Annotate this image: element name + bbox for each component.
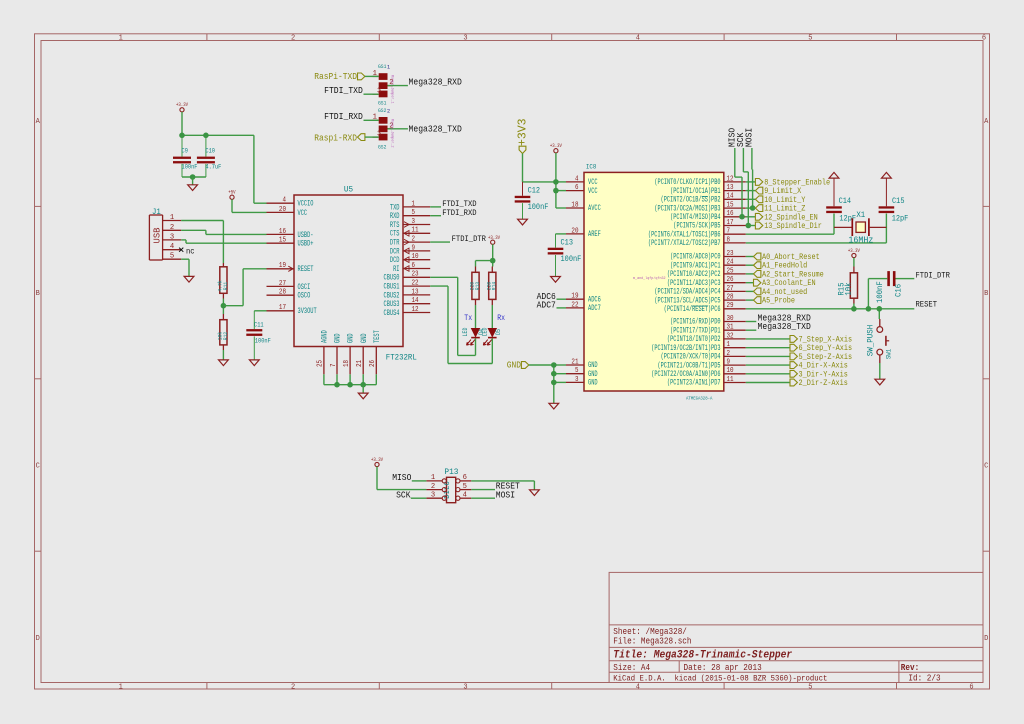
hier label 8_Stepper_Enable xyxy=(746,181,756,183)
svg-text:CBUS0: CBUS0 xyxy=(384,274,400,283)
wire pad2 to Mega328_TXD xyxy=(388,128,408,130)
junction R11/R12/RESET xyxy=(221,303,227,309)
svg-text:13: 13 xyxy=(412,288,419,296)
svg-text:6: 6 xyxy=(412,262,416,270)
svg-text:4: 4 xyxy=(575,175,579,183)
svg-text:26: 26 xyxy=(369,360,377,367)
svg-text:6: 6 xyxy=(982,35,986,43)
junction GND21 xyxy=(551,362,557,368)
wire R11 to R12 xyxy=(222,299,224,315)
IC8 pin 32 PD2 xyxy=(724,338,746,340)
wire J1 pin1 VBUS to R11 xyxy=(181,220,223,222)
U5 pin 9 DCR xyxy=(403,250,430,252)
svg-text:GS2: GS2 xyxy=(378,107,387,114)
svg-text:C10: C10 xyxy=(205,148,215,155)
junction rail/C9 xyxy=(179,133,185,139)
svg-text:20: 20 xyxy=(279,206,286,214)
svg-text:(PCINT23/AIN1)PD7: (PCINT23/AIN1)PD7 xyxy=(667,379,721,388)
IC8 pin 3 GND xyxy=(566,381,584,383)
svg-text:P13: P13 xyxy=(444,467,458,477)
svg-text:RI: RI xyxy=(393,265,399,274)
svg-text:32: 32 xyxy=(727,332,734,340)
svg-text:RasPi-TXD: RasPi-TXD xyxy=(314,72,357,82)
svg-text:26: 26 xyxy=(727,276,734,284)
wire RESET to P13 xyxy=(471,489,495,491)
junction GND3 xyxy=(551,380,557,386)
svg-text:27: 27 xyxy=(727,285,734,293)
IC8 pin 27 PC4 xyxy=(724,290,746,292)
wire PD0 to Mega328_RXD xyxy=(746,321,757,323)
hier label 6_Step_Y-Axis xyxy=(746,347,790,349)
svg-text:AREF: AREF xyxy=(588,230,601,239)
svg-text:+3.3V: +3.3V xyxy=(848,248,860,254)
P13 pin 2 xyxy=(426,489,442,491)
wire ADC6 xyxy=(557,298,567,300)
svg-text:IC8: IC8 xyxy=(586,164,597,171)
svg-text:Date: 28 apr 2013: Date: 28 apr 2013 xyxy=(684,663,762,673)
wire GND rail xyxy=(529,364,554,366)
IC8 pin 31 PD1 xyxy=(724,329,746,331)
wire SCK to P13 xyxy=(411,497,427,499)
svg-text:RESET: RESET xyxy=(298,265,314,274)
power +3.3V (C9/C10 rail) xyxy=(180,108,184,112)
svg-text:1: 1 xyxy=(387,65,390,71)
svg-text:R13: R13 xyxy=(474,281,481,290)
svg-text:FTDI_TXD: FTDI_TXD xyxy=(324,86,363,96)
svg-text:14: 14 xyxy=(412,297,419,305)
svg-text:1: 1 xyxy=(119,683,123,691)
svg-text:FT232RL: FT232RL xyxy=(386,353,417,363)
svg-text:23: 23 xyxy=(412,271,419,279)
svg-text:20: 20 xyxy=(571,227,578,235)
svg-text:5: 5 xyxy=(808,35,812,43)
hier label 5_Step-Z-Axis xyxy=(746,355,790,357)
svg-text:10k: 10k xyxy=(845,282,853,295)
svg-text:31: 31 xyxy=(727,324,734,332)
svg-text:(PCINT4/MISO)PB4: (PCINT4/MISO)PB4 xyxy=(670,213,721,222)
IC8 pin 1 PD3 xyxy=(724,347,746,349)
svg-text:29: 29 xyxy=(727,302,734,310)
hier label A3_Coolant_EN xyxy=(746,282,754,284)
svg-text:25: 25 xyxy=(727,267,734,275)
jumper GS1 pin 3 xyxy=(373,93,379,95)
hier label A1_FeedHold xyxy=(746,264,754,266)
svg-text:3: 3 xyxy=(170,233,174,241)
svg-text:C11: C11 xyxy=(254,322,264,329)
svg-text:(PCINT10/ADC2)PC2: (PCINT10/ADC2)PC2 xyxy=(667,270,721,279)
crystal X1 xyxy=(834,226,852,228)
svg-text:A: A xyxy=(984,118,989,126)
P13 pin 4 xyxy=(460,497,471,499)
wire RXD to FTDI_RXD xyxy=(430,215,441,217)
svg-text:ADC7: ADC7 xyxy=(588,304,601,313)
svg-text:ATMEGA328-A: ATMEGA328-A xyxy=(686,396,712,402)
capacitor C12 xyxy=(522,182,524,196)
wire C16 to RESET net xyxy=(868,278,880,280)
svg-text:2: 2 xyxy=(170,224,174,232)
svg-text:14: 14 xyxy=(727,193,734,201)
IC8 pin 24 PC1 xyxy=(724,264,746,266)
svg-text:Title: Mega328-Trinamic-Steppe: Title: Mega328-Trinamic-Stepper xyxy=(613,650,792,662)
ground below R12 xyxy=(219,360,229,366)
svg-text:(PCINT1/OC1A)PB1: (PCINT1/OC1A)PB1 xyxy=(670,187,721,196)
wire divider to U5 RESET xyxy=(223,305,243,307)
svg-text:5: 5 xyxy=(463,483,467,491)
capacitor C15 xyxy=(879,206,895,208)
capacitor C11 xyxy=(254,310,266,312)
svg-text:C16: C16 xyxy=(896,284,904,297)
svg-text:GND: GND xyxy=(334,333,343,343)
junction gnd bus pin7 xyxy=(334,382,340,388)
capacitor C14 xyxy=(826,206,842,208)
ground below SW1 xyxy=(875,379,885,385)
wire SW1 to ground xyxy=(879,363,881,379)
svg-text:RTS: RTS xyxy=(390,221,400,230)
diode D5 LED Rx xyxy=(488,328,497,337)
wire RasPi-TXD to pad1 xyxy=(365,75,379,77)
svg-text:4: 4 xyxy=(636,683,640,691)
ground below J1 xyxy=(184,276,194,282)
power +3.3V at FTDI_DTR xyxy=(491,240,495,244)
svg-text:9: 9 xyxy=(727,359,731,367)
svg-text:CBUS1: CBUS1 xyxy=(384,283,400,292)
svg-text:13_Spindle_Dir: 13_Spindle_Dir xyxy=(764,221,822,231)
U5 pin 25 AGND xyxy=(323,347,325,375)
resistor R12 xyxy=(222,314,224,320)
wire J1 pin3 to USBD+ xyxy=(181,239,186,241)
svg-text:22: 22 xyxy=(571,301,578,309)
svg-text:1: 1 xyxy=(119,35,123,43)
svg-text:D5: D5 xyxy=(495,329,502,335)
U5 pin 28 OSCO xyxy=(267,294,295,296)
hier label 11_Limit_Z xyxy=(746,207,756,209)
svg-text:Mega328_RXD: Mega328_RXD xyxy=(409,78,462,88)
jumper GS2 pads xyxy=(379,117,388,124)
hier label 3_Dir-Y-Axis xyxy=(746,373,790,375)
svg-text:DCR: DCR xyxy=(390,247,400,256)
svg-text:19: 19 xyxy=(571,293,578,301)
wire bus to ground xyxy=(362,385,364,393)
U5 pin 3 RTS xyxy=(403,224,430,226)
IC8 pin 11 PD7 xyxy=(724,382,746,384)
U5 pin 1 TXD xyxy=(403,206,430,208)
svg-text:TEST: TEST xyxy=(373,330,382,343)
capacitor C9 xyxy=(181,135,183,156)
svg-text:27: 27 xyxy=(279,280,286,288)
svg-text:GND: GND xyxy=(507,361,521,371)
svg-text:21: 21 xyxy=(571,358,578,366)
svg-text:(PCINT19/OC2B/INT1)PD3: (PCINT19/OC2B/INT1)PD3 xyxy=(651,344,720,353)
svg-text:2_Dir-Z-Axis: 2_Dir-Z-Axis xyxy=(799,378,848,388)
svg-text:12pF: 12pF xyxy=(892,216,909,224)
ground below IC8 rail xyxy=(549,403,559,409)
resistor R11 xyxy=(222,263,224,267)
power +3.3V at R15 xyxy=(852,253,856,257)
wire +3.3V to P13 pin2 xyxy=(376,467,378,490)
wire +3.3V stem xyxy=(181,112,183,135)
svg-text:C14: C14 xyxy=(839,198,852,206)
jumper GS1 pads xyxy=(379,73,388,80)
svg-text:Sheet: /Mega328/: Sheet: /Mega328/ xyxy=(613,627,687,637)
svg-text:25: 25 xyxy=(317,360,325,367)
svg-text:DTR: DTR xyxy=(390,239,400,248)
IC8 pin 25 PC2 xyxy=(724,273,746,275)
junction gnd bus pin18 xyxy=(347,382,353,388)
svg-text:GS1: GS1 xyxy=(378,63,387,70)
IC8 pin 18 AVCC xyxy=(566,207,584,209)
capacitor C10 xyxy=(205,135,207,156)
svg-text:(PCINT7/XTAL2/TOSC2)PB7: (PCINT7/XTAL2/TOSC2)PB7 xyxy=(648,239,721,248)
svg-text:22: 22 xyxy=(412,280,419,288)
svg-text:5: 5 xyxy=(412,209,416,217)
U5 pin 22 CBUS1 xyxy=(403,285,430,287)
svg-text:4: 4 xyxy=(170,243,174,251)
svg-text:AGND: AGND xyxy=(321,330,330,343)
svg-text:C12: C12 xyxy=(528,187,541,195)
svg-text:R14: R14 xyxy=(491,281,498,290)
junction +3.3V node xyxy=(490,258,496,264)
svg-text:GND: GND xyxy=(360,333,369,343)
svg-text:SW1: SW1 xyxy=(885,349,892,359)
svg-text:11: 11 xyxy=(727,376,734,384)
svg-text:OSCI: OSCI xyxy=(298,283,311,292)
svg-text:8: 8 xyxy=(727,236,731,244)
power +3.3V at P13 xyxy=(375,462,379,466)
power +3.3V at IC8 xyxy=(554,149,558,153)
wire CBUS0 to D4 xyxy=(430,276,458,278)
svg-text:(PCINT0/CLKO/ICP1)PB0: (PCINT0/CLKO/ICP1)PB0 xyxy=(654,178,720,187)
svg-text:17: 17 xyxy=(279,304,286,312)
svg-text:DCD: DCD xyxy=(390,256,400,265)
junction GND5 xyxy=(551,371,557,377)
svg-text:18: 18 xyxy=(343,360,351,367)
svg-text:J1: J1 xyxy=(152,208,161,217)
svg-text:24: 24 xyxy=(727,259,734,267)
svg-text:9: 9 xyxy=(412,244,416,252)
svg-text:6: 6 xyxy=(463,474,467,482)
svg-text:2: 2 xyxy=(291,35,295,43)
P13 pin 5 xyxy=(460,489,471,491)
U5 pin 16 USBD- xyxy=(267,233,295,235)
svg-text:3: 3 xyxy=(463,35,467,43)
svg-text:GND: GND xyxy=(588,370,598,379)
hier label 2_Dir-Z-Axis xyxy=(746,382,790,384)
svg-text:A: A xyxy=(36,118,41,126)
svg-text:(PCINT16/RXD)PD0: (PCINT16/RXD)PD0 xyxy=(670,318,721,327)
IC8 pin 21 GND xyxy=(566,364,584,366)
svg-text:5: 5 xyxy=(575,367,579,375)
junction SCK/PB5 xyxy=(746,223,752,229)
hier label 12_Spindle_EN xyxy=(746,216,756,218)
svg-text:+3.3V: +3.3V xyxy=(176,102,188,108)
IC8 pin 5 GND xyxy=(566,373,584,375)
svg-text:FTDI_RXD: FTDI_RXD xyxy=(442,208,476,218)
U5 pin 10 DCD xyxy=(403,259,430,261)
svg-text:ADC6: ADC6 xyxy=(588,295,601,304)
IC8 pin 26 PC3 xyxy=(724,282,746,284)
svg-text:U5: U5 xyxy=(344,185,353,195)
U5 pin 21 GND xyxy=(362,347,364,375)
svg-text:5: 5 xyxy=(170,253,174,261)
junction rail/C10 xyxy=(203,133,209,139)
wire FTDI_TXD to pad3 xyxy=(364,93,379,95)
svg-text:13: 13 xyxy=(727,184,734,192)
wire U5 ground bus xyxy=(323,374,325,384)
svg-text:1: 1 xyxy=(431,474,435,482)
hier label A5_Probe xyxy=(746,299,754,301)
U5 pin 13 CBUS2 xyxy=(403,294,430,296)
svg-text:(PCINT9/ADC1)PC1: (PCINT9/ADC1)PC1 xyxy=(670,261,721,270)
svg-text:R12: R12 xyxy=(222,331,229,340)
IC8 pin 28 PC5 xyxy=(724,299,746,301)
svg-text:RESET: RESET xyxy=(916,300,938,310)
svg-text:+3.3V: +3.3V xyxy=(371,457,383,463)
connector J1 USB xyxy=(162,215,164,260)
svg-text:18: 18 xyxy=(571,201,578,209)
J1 pin 1 xyxy=(163,220,182,222)
svg-text:FTDI_RXD: FTDI_RXD xyxy=(324,112,363,122)
svg-text:Mega328_TXD: Mega328_TXD xyxy=(758,322,811,332)
IC8 pin 22 ADC7 xyxy=(566,307,584,309)
J1 pin 5 xyxy=(163,258,182,260)
svg-text:(PCINT12/SDA/ADC4)PC4: (PCINT12/SDA/ADC4)PC4 xyxy=(654,288,720,297)
wire P13 pin6 to ground xyxy=(471,480,534,482)
U5 pin 18 GND xyxy=(349,347,351,375)
hier label 10_Limit_Y xyxy=(746,198,756,200)
wire R15 to RESET net xyxy=(853,304,855,309)
wire Raspi-RXD to pad3 xyxy=(365,136,379,138)
U5 pin 20 VCC xyxy=(267,211,295,213)
svg-text:4: 4 xyxy=(283,197,287,205)
junction VCC6 xyxy=(553,188,559,194)
wire C9/C10 gnd bus xyxy=(182,176,206,178)
svg-text:USBD+: USBD+ xyxy=(298,240,314,249)
wire PC6 RESET net xyxy=(746,308,915,310)
junction VCC4 xyxy=(553,179,559,185)
svg-text:100nF: 100nF xyxy=(877,281,885,303)
svg-text:Id: 2/3: Id: 2/3 xyxy=(908,674,940,684)
IC8 pin 15 PB3 xyxy=(724,207,746,209)
svg-text:m_and_lqfp/qfn32: m_and_lqfp/qfn32 xyxy=(633,276,666,281)
svg-text:4.7uF: 4.7uF xyxy=(205,163,221,170)
svg-text:SCK: SCK xyxy=(396,490,411,500)
IC8 pin 14 PB2 xyxy=(724,198,746,200)
svg-text:6: 6 xyxy=(969,683,973,691)
U5 pin 23 CBUS0 xyxy=(403,276,430,278)
svg-text:OSCO: OSCO xyxy=(298,292,311,301)
svg-text:(PCINT11/ADC3)PC3: (PCINT11/ADC3)PC3 xyxy=(667,279,721,288)
junction MISO/PB4 xyxy=(739,214,745,220)
jumper GS1 pin 2 xyxy=(388,85,394,87)
svg-text:3: 3 xyxy=(463,683,467,691)
junction SW1/RESET xyxy=(877,306,883,312)
svg-text:(PCINT3/OC2A/MOSI)PB3: (PCINT3/OC2A/MOSI)PB3 xyxy=(654,204,720,213)
svg-text:21: 21 xyxy=(356,360,364,367)
wire R14 to LED D5 xyxy=(491,305,493,328)
svg-text:(PCINT13/SCL/ADC5)PC5: (PCINT13/SCL/ADC5)PC5 xyxy=(654,296,720,305)
svg-text:16MHz: 16MHz xyxy=(848,236,873,246)
svg-text:15: 15 xyxy=(279,237,286,245)
svg-text:1: 1 xyxy=(412,200,416,208)
J1 pin 4 nc xyxy=(163,249,182,251)
svg-text:19: 19 xyxy=(279,262,286,270)
svg-text:16: 16 xyxy=(279,228,286,236)
svg-text:VCCIO: VCCIO xyxy=(298,200,314,209)
svg-text:Rx: Rx xyxy=(497,313,505,323)
svg-text:CBUS2: CBUS2 xyxy=(384,291,400,300)
svg-text:(PCINT8/ADC0)PC0: (PCINT8/ADC0)PC0 xyxy=(670,253,721,262)
U5 pin 17 3V3OUT xyxy=(267,310,295,312)
wire MISO to P13 xyxy=(412,480,427,482)
IC8 pin 10 PD6 xyxy=(724,373,746,375)
svg-text:VCC: VCC xyxy=(298,209,308,218)
wire PB6 to crystal xyxy=(746,233,834,235)
svg-text:100nF: 100nF xyxy=(255,338,271,345)
ground above C15 xyxy=(882,172,892,178)
IC8 pin 29 PC6 xyxy=(724,308,746,310)
svg-text:C13: C13 xyxy=(561,239,574,247)
IC8 pin 12 PB0 xyxy=(724,181,746,183)
diode D4 LED Tx xyxy=(471,328,480,337)
wire node to R13 xyxy=(476,260,493,262)
IC8 pin 2 PD4 xyxy=(724,355,746,357)
U5 RESET pin mark xyxy=(288,266,293,271)
hier label 7_Step_X-Axis xyxy=(746,338,790,340)
wire +3.3V vertical to VCC/AVCC xyxy=(555,153,557,208)
svg-text:(PCINT6/XTAL1/TOSC1)PB6: (PCINT6/XTAL1/TOSC1)PB6 xyxy=(648,230,721,239)
IC8 pin 13 PB1 xyxy=(724,190,746,192)
svg-text:TXD: TXD xyxy=(390,203,400,212)
ground below U5 xyxy=(358,393,368,399)
svg-text:LED: LED xyxy=(482,327,489,336)
svg-text:5: 5 xyxy=(808,683,812,691)
svg-text:23: 23 xyxy=(727,250,734,258)
wire +3V3 to rail xyxy=(522,154,524,182)
hier label A0_Abort_Reset xyxy=(746,256,754,258)
svg-text:CTS: CTS xyxy=(390,230,400,239)
svg-text:D: D xyxy=(36,635,40,643)
svg-text:USB: USB xyxy=(152,227,163,243)
svg-text:3: 3 xyxy=(412,218,416,226)
svg-text:MOSI: MOSI xyxy=(745,128,755,147)
wire pad2 to Mega328_RXD xyxy=(388,85,408,87)
svg-text:R11: R11 xyxy=(222,281,229,290)
ground below C9/C10 xyxy=(192,177,194,185)
svg-text:(PCINT2/OC1B/SS)PB2: (PCINT2/OC1B/SS)PB2 xyxy=(661,196,721,205)
hier label 13_Spindle_Dir xyxy=(746,225,756,227)
resistor R13 xyxy=(475,267,477,273)
junction gnd bus xyxy=(190,174,196,180)
wire PB7 to crystal xyxy=(746,242,887,244)
hier label 9_Limit_X xyxy=(746,190,756,192)
U5 pin 2 DTR xyxy=(403,241,430,243)
wire DTR to FTDI_DTR xyxy=(430,241,450,243)
svg-text:10: 10 xyxy=(412,253,419,261)
svg-text:C: C xyxy=(36,463,40,471)
ground below C12 xyxy=(518,219,528,225)
svg-text:Raspi_Jumper_2: Raspi_Jumper_2 xyxy=(390,119,395,148)
resistor R15 xyxy=(853,267,855,273)
IC8 pin 20 AREF xyxy=(566,233,584,235)
U5 pin 27 OSCI xyxy=(267,285,295,287)
U5 pin 12 CBUS4 xyxy=(403,312,430,314)
svg-text:(PCINT18/INT0)PD2: (PCINT18/INT0)PD2 xyxy=(667,335,721,344)
IC8 pin 7 PB6 xyxy=(724,233,746,235)
svg-text:FTDI_DTR: FTDI_DTR xyxy=(452,234,486,244)
svg-text:Size: A4: Size: A4 xyxy=(613,663,650,673)
svg-text:6: 6 xyxy=(575,184,579,192)
svg-text:MOSI: MOSI xyxy=(496,490,515,500)
